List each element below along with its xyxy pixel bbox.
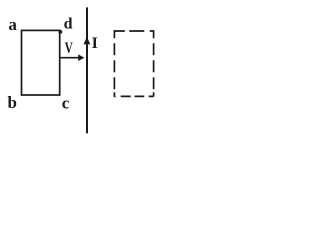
svg-text:V: V	[65, 40, 74, 57]
svg-text:a: a	[8, 15, 17, 34]
svg-text:c: c	[62, 94, 70, 113]
svg-text:d: d	[64, 16, 73, 33]
svg-text:I: I	[92, 35, 98, 52]
svg-text:b: b	[8, 93, 17, 112]
